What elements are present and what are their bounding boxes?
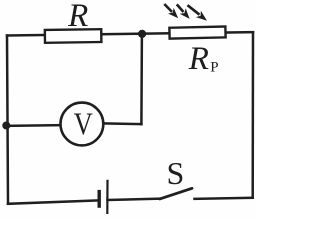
svg-text:V: V: [74, 106, 93, 142]
light arrow 1: [164, 4, 178, 18]
battery B1 short plate: [97, 190, 100, 208]
wire top (left corner to right corner): [7, 32, 253, 35]
wire left side: [7, 36, 8, 204]
svg-text:R: R: [188, 41, 209, 77]
wire bottom mid (battery to switch hinge): [108, 199, 161, 200]
light arrow 3: [188, 5, 208, 21]
resistor R1 body: [45, 29, 102, 43]
wire bottom left (corner to battery): [8, 200, 98, 203]
photoresistor RP body: [169, 26, 225, 38]
wire right side: [251, 32, 254, 198]
voltmeter V1 circle: [61, 103, 104, 146]
svg-text:S: S: [167, 155, 185, 191]
node junction left (dot): [2, 122, 10, 130]
wire bottom right (switch contact to corner): [195, 198, 253, 199]
wire voltmeter branch left (junction to meter): [6, 124, 61, 127]
light arrow 2: [177, 4, 190, 19]
battery B1 long plate: [106, 180, 108, 214]
switch S1 lever: [160, 188, 192, 199]
svg-text:R: R: [67, 0, 88, 34]
wire voltmeter branch right (meter to corner): [103, 122, 141, 125]
svg-text:P: P: [210, 59, 218, 75]
wire voltmeter branch vertical (up to top junction): [140, 34, 143, 124]
node junction top (dot): [138, 30, 146, 38]
